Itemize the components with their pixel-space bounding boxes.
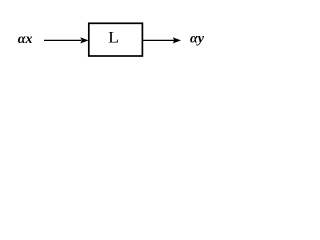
svg-text:L: L — [108, 30, 119, 47]
svg-text:αy: αy — [190, 32, 205, 47]
svg-text:αx: αx — [18, 32, 33, 47]
